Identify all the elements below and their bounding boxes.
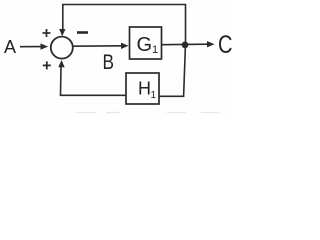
svg-text:1: 1 bbox=[152, 44, 158, 56]
faint scan smudges along bottom bbox=[76, 112, 219, 114]
minus sign (top feedback) bbox=[77, 31, 88, 34]
block H1 bbox=[126, 73, 159, 104]
wire: G1 to output C bbox=[162, 41, 215, 47]
svg-text:C: C bbox=[218, 31, 233, 59]
svg-text:G: G bbox=[137, 34, 153, 56]
wire: summing junction to G1 (node B) bbox=[73, 43, 129, 49]
wire: output node down to H1 input bbox=[160, 46, 186, 96]
svg-text:1: 1 bbox=[151, 90, 157, 101]
wire: input A to summing junction bbox=[20, 43, 48, 49]
svg-text:B: B bbox=[103, 51, 115, 74]
summing junction bbox=[51, 37, 73, 59]
svg-text:A: A bbox=[4, 37, 16, 57]
block G1 bbox=[130, 27, 162, 59]
wire: top feedback from output node to summing junction (with down arrow) bbox=[63, 5, 186, 45]
plus sign (A input, above arrow) bbox=[43, 29, 51, 37]
wire: H1 output to summing junction bottom (with up arrow) bbox=[61, 66, 127, 95]
plus sign (H1 feedback, left of arrow) bbox=[43, 61, 51, 69]
svg-text:H: H bbox=[138, 79, 151, 99]
junction node (takeoff point) bbox=[182, 42, 189, 49]
